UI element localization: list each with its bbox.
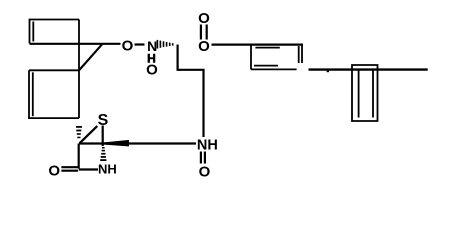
ring C right edge double lines [299, 45, 302, 63]
hashed bond from thiirane right carbon down to NH [102, 147, 105, 149]
svg-text:O: O [48, 162, 60, 179]
ring C inner bottom double line [254, 65, 278, 67]
wire: fluorene diagonal bond [79, 44, 103, 71]
wire: bond carbonyl C to NH [79, 168, 98, 170]
svg-text:S: S [98, 112, 109, 129]
bold wedge bond from thiirane right carbon [103, 140, 129, 147]
ring A double bond inner line [32, 22, 34, 42]
wire: bond ester O to ring C [212, 43, 304, 45]
C=O double bond of ester (vertical pair) [201, 25, 207, 40]
svg-text:O: O [198, 10, 210, 27]
junction tick on long bond line [327, 71, 329, 73]
svg-text:O: O [146, 61, 158, 78]
ring A (top-left benzene rectangle) [30, 20, 80, 44]
shared right edge of rings A and B [78, 20, 80, 119]
wire: bond left carbon down to carbonyl C [78, 144, 80, 169]
ring D outer rectangle [352, 65, 378, 121]
wire: long bond line to ring D and beyond [309, 68, 428, 70]
wire: main bond line from ring A to O [30, 43, 121, 45]
svg-text:O: O [199, 163, 211, 180]
ring C bottom edge [251, 68, 297, 70]
svg-text:O: O [122, 37, 134, 54]
C=O double bond of left carbonyl [61, 167, 78, 171]
svg-text:O: O [198, 38, 210, 55]
hashed wedge at thiirane left carbon (upward) [76, 126, 82, 128]
wire: chain from stereocenter down [178, 45, 204, 138]
svg-text:NH: NH [98, 162, 117, 177]
wire: bond O to N [135, 43, 145, 45]
hashed wedge N to stereocenter [157, 40, 159, 49]
ring B double bond inner line [32, 72, 34, 116]
thiirane bond S to left carbon [80, 126, 98, 143]
N=O double bond below right NH [201, 152, 205, 164]
wire: long bond line from left carbon to right NH [79, 142, 196, 144]
ring D inner double lines [359, 71, 373, 118]
ring C left edge [250, 45, 252, 70]
ring B (lower-left benzene rectangle) [29, 70, 79, 118]
ring C inner top double line [255, 47, 279, 49]
thiirane bond S to right carbon [102, 126, 104, 147]
svg-text:NH: NH [197, 138, 218, 154]
